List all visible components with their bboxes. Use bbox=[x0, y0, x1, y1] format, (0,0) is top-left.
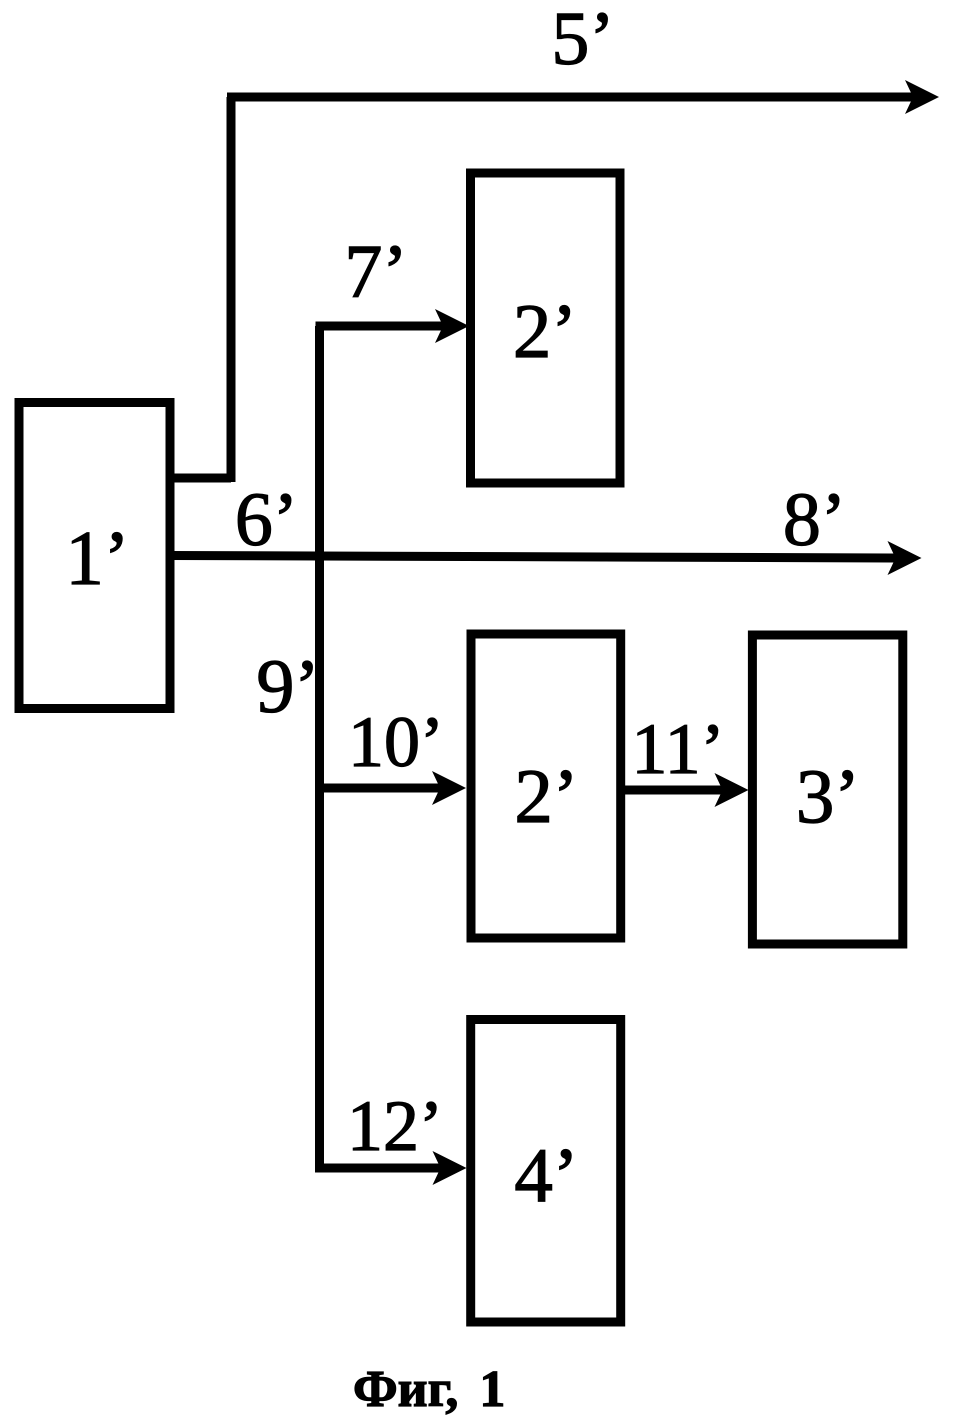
svg-text:5’: 5’ bbox=[551, 0, 614, 81]
svg-text:Фиг,1: Фиг,1 bbox=[353, 1361, 505, 1418]
wire: 5' top run bbox=[227, 93, 915, 102]
arrowhead 11' bbox=[715, 773, 749, 807]
svg-text:12’: 12’ bbox=[347, 1086, 443, 1166]
wire: stub from block 1' to 5' riser bbox=[170, 474, 231, 483]
svg-text:2’: 2’ bbox=[513, 288, 577, 374]
wire: arrow 7' run to block 2' (top) bbox=[316, 322, 446, 331]
block 2' (middle) bbox=[471, 634, 621, 938]
arrowhead 7' bbox=[435, 309, 469, 343]
svg-text:1’: 1’ bbox=[65, 515, 129, 601]
wire: 9' vertical trunk bbox=[315, 326, 324, 1168]
wire: 5' riser bbox=[227, 97, 236, 482]
block 4' bbox=[471, 1020, 621, 1323]
svg-text:6’: 6’ bbox=[235, 478, 298, 562]
svg-text:9’: 9’ bbox=[256, 645, 319, 729]
block 3' bbox=[752, 635, 902, 944]
svg-text:3’: 3’ bbox=[796, 753, 860, 839]
wire: 6'/8' run from block 1' to arrowhead bbox=[170, 556, 897, 559]
block 1' bbox=[19, 403, 170, 709]
wire: arrow 10' run to block 2' (middle) bbox=[316, 784, 443, 793]
svg-text:2’: 2’ bbox=[514, 753, 578, 839]
wire: arrow 12' elbow run to block 4' bbox=[320, 1164, 443, 1168]
arrowhead 5' bbox=[905, 80, 939, 114]
svg-text:7’: 7’ bbox=[344, 230, 407, 314]
arrowhead 12' bbox=[433, 1151, 467, 1185]
svg-text:11’: 11’ bbox=[631, 709, 724, 789]
wire: arrow 11' run from block 2' to block 3' bbox=[621, 786, 724, 795]
block 2' (top) bbox=[471, 173, 621, 483]
svg-text:10’: 10’ bbox=[348, 702, 444, 782]
arrowhead 10' bbox=[432, 771, 466, 805]
svg-text:8’: 8’ bbox=[783, 478, 846, 562]
arrowhead 8' bbox=[888, 541, 922, 575]
svg-text:4’: 4’ bbox=[514, 1132, 578, 1218]
